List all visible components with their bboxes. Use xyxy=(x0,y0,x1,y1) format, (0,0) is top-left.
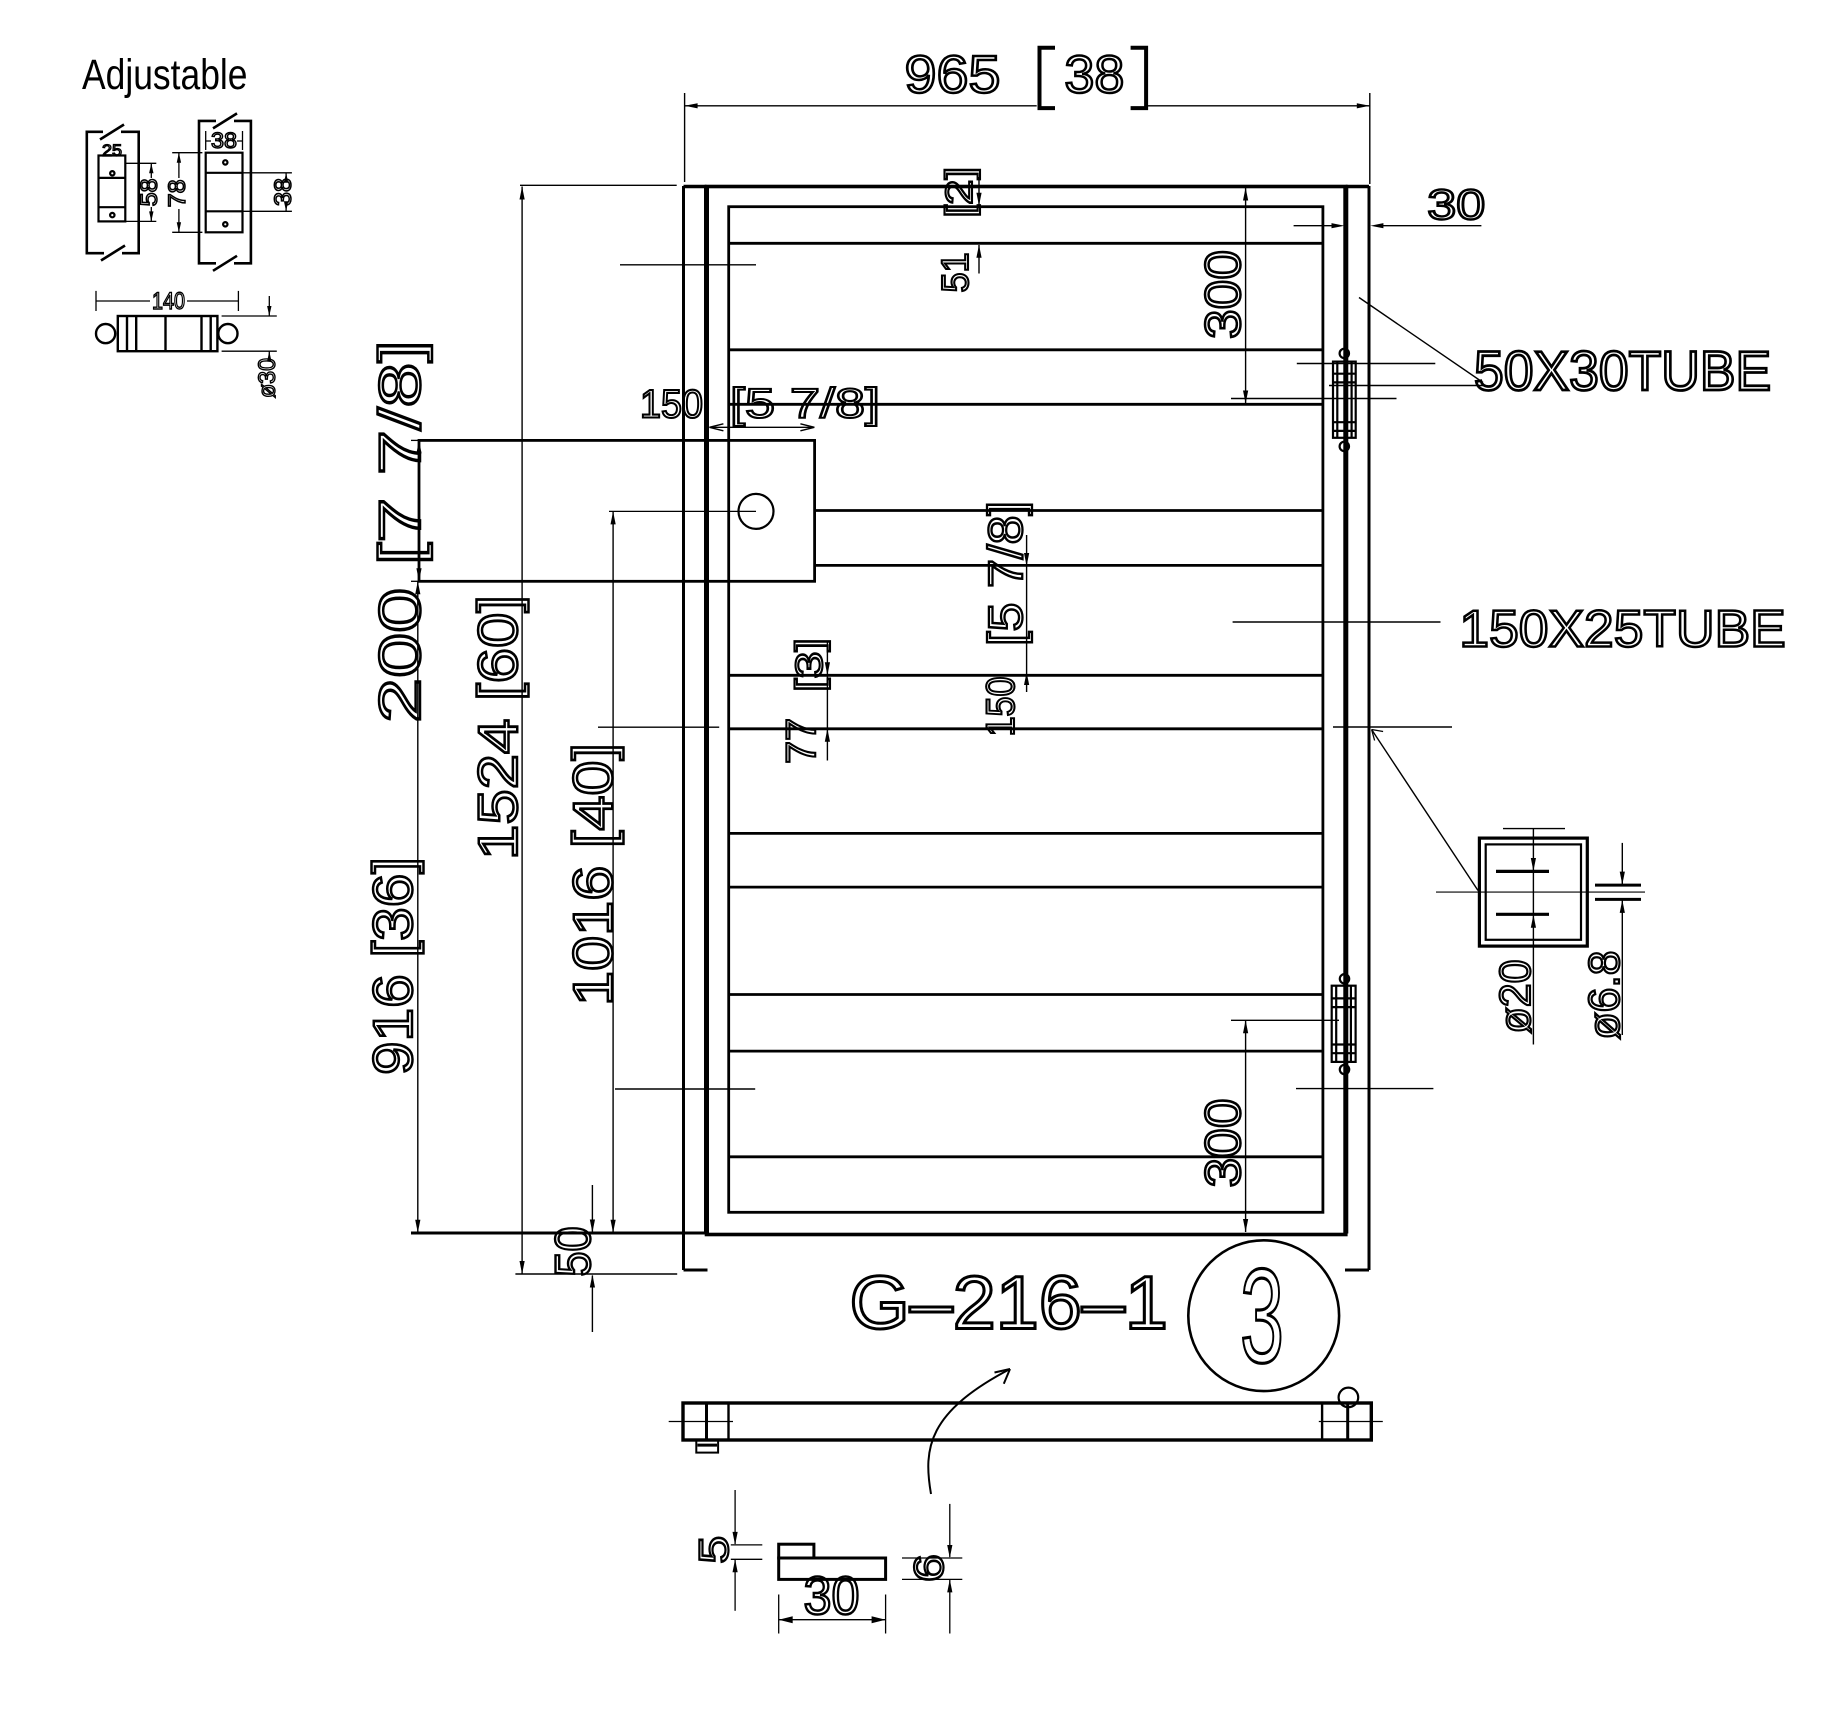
slot hole edge top xyxy=(1496,870,1549,873)
detail2 post face xyxy=(199,113,251,270)
dim 30 top right xyxy=(1294,181,1486,229)
tick line left slat4 xyxy=(598,726,719,728)
dim 38 right xyxy=(243,173,298,212)
post bottom extension line xyxy=(515,1273,677,1275)
top view bar xyxy=(683,1403,1371,1440)
svg-text:25: 25 xyxy=(102,141,122,160)
dim 38 top xyxy=(206,128,243,153)
svg-text:30: 30 xyxy=(804,1566,860,1626)
right post xyxy=(1345,186,1369,1270)
svg-text:[3]: [3] xyxy=(789,638,831,692)
gate frame outer xyxy=(707,187,1346,1235)
svg-text:50: 50 xyxy=(545,1227,601,1277)
svg-text:150: 150 xyxy=(640,383,703,427)
leader tube detail xyxy=(1372,730,1478,891)
svg-text:[5 7/8]: [5 7/8] xyxy=(980,501,1033,646)
svg-text:6: 6 xyxy=(905,1554,952,1582)
detail2 hinge plate xyxy=(206,153,243,233)
detail1 hinge plate xyxy=(99,141,126,221)
slot hole edge bottom xyxy=(1496,913,1549,916)
leader 50X30TUBE horizontal xyxy=(1329,385,1483,387)
dim o20 xyxy=(1491,829,1565,1045)
dim 51 [2] top middle xyxy=(935,167,982,293)
gate frame inner xyxy=(729,207,1323,1213)
tick line left slat6 xyxy=(615,1088,755,1090)
svg-text:[2]: [2] xyxy=(939,167,981,218)
leader 50X30TUBE diagonal xyxy=(1359,298,1483,383)
hinge bottom xyxy=(1332,974,1356,1074)
svg-text:150X25TUBE: 150X25TUBE xyxy=(1459,601,1785,659)
svg-text:50X30TUBE: 50X30TUBE xyxy=(1474,339,1771,402)
GATE-STRUCTURE xyxy=(411,186,1369,1270)
svg-text:3: 3 xyxy=(1240,1242,1284,1391)
latch box xyxy=(419,440,815,581)
tick line right bottom xyxy=(1296,1088,1433,1090)
svg-text:916 [36]: 916 [36] xyxy=(361,857,424,1075)
svg-text:ø6.8: ø6.8 xyxy=(1580,951,1629,1040)
svg-text:ø20: ø20 xyxy=(1491,960,1540,1034)
dim 200 [7 7/8] left xyxy=(368,340,433,723)
dim 965 [38] top xyxy=(685,45,1370,184)
gate bottom extension line xyxy=(411,1232,707,1235)
dim 77 [3] xyxy=(777,638,831,764)
leader 150X25TUBE xyxy=(1233,621,1441,623)
tube section outer xyxy=(1479,838,1587,946)
dim 58 xyxy=(125,163,163,221)
dim 30 xyxy=(779,1566,886,1634)
gate frame top extension over posts xyxy=(684,185,707,189)
tick line right mid xyxy=(1333,726,1452,728)
centerline right xyxy=(1319,1421,1383,1423)
svg-text:300: 300 xyxy=(1195,250,1251,339)
dim 150 [5 7/8] latch xyxy=(640,380,880,431)
latch centerline xyxy=(609,510,756,512)
dim 6 xyxy=(902,1504,962,1634)
dim 78 xyxy=(164,153,202,233)
hinge pin circle xyxy=(1339,1388,1359,1408)
svg-text:1016 [40]: 1016 [40] xyxy=(561,743,624,1006)
dim 1016 [40] xyxy=(561,511,624,1232)
svg-text:51: 51 xyxy=(935,253,977,293)
dim 300 bottom right xyxy=(1195,1020,1339,1232)
svg-text:150: 150 xyxy=(979,677,1023,737)
dim o6.8 xyxy=(1436,843,1645,1040)
dim 150 [5 7/8] mid slat xyxy=(979,501,1033,737)
svg-text:[5 7/8]: [5 7/8] xyxy=(730,380,880,427)
hinge top xyxy=(1333,349,1356,451)
dim 916 [36] xyxy=(361,581,424,1233)
tick line left slat1 xyxy=(620,264,756,266)
svg-text:140: 140 xyxy=(152,288,185,315)
svg-text:965: 965 xyxy=(905,45,1001,104)
dim 140 xyxy=(96,288,238,315)
tick line right top hinge xyxy=(1297,363,1436,365)
latch keeper under bar xyxy=(696,1440,718,1453)
svg-text:5: 5 xyxy=(690,1536,737,1564)
tube section inner xyxy=(1486,844,1581,939)
striker plate xyxy=(779,1558,886,1579)
dim 1524 [60] xyxy=(466,185,677,1274)
svg-text:200 [7 7/8]: 200 [7 7/8] xyxy=(368,340,433,723)
left post xyxy=(684,186,708,1270)
centerline left xyxy=(669,1421,733,1423)
svg-text:G–216–1: G–216–1 xyxy=(850,1261,1168,1345)
svg-text:38: 38 xyxy=(270,178,297,206)
svg-text:30: 30 xyxy=(1427,181,1485,229)
svg-text:ø30: ø30 xyxy=(254,358,281,398)
detail1 post section xyxy=(87,125,139,261)
svg-text:300: 300 xyxy=(1195,1099,1251,1188)
striker tab xyxy=(779,1544,814,1558)
svg-text:77: 77 xyxy=(777,718,824,764)
hinge barrel body xyxy=(96,316,237,351)
dim 300 top right xyxy=(1195,188,1397,404)
dim 5 xyxy=(690,1490,762,1611)
dim 50 bottom left xyxy=(545,1185,601,1332)
slat lines xyxy=(729,243,1323,1157)
dim o30 barrel xyxy=(222,296,281,398)
lock rail xyxy=(815,511,1323,566)
latch circle xyxy=(739,494,774,529)
svg-text:38: 38 xyxy=(211,128,237,153)
svg-text:1524 [60]: 1524 [60] xyxy=(466,595,529,860)
svg-text:Adjustable: Adjustable xyxy=(82,52,248,99)
balloon circle xyxy=(1188,1240,1339,1391)
svg-text:58: 58 xyxy=(136,178,163,206)
svg-text:78: 78 xyxy=(164,179,191,207)
svg-text:38: 38 xyxy=(1064,45,1124,104)
curved arrow xyxy=(928,1369,1010,1494)
